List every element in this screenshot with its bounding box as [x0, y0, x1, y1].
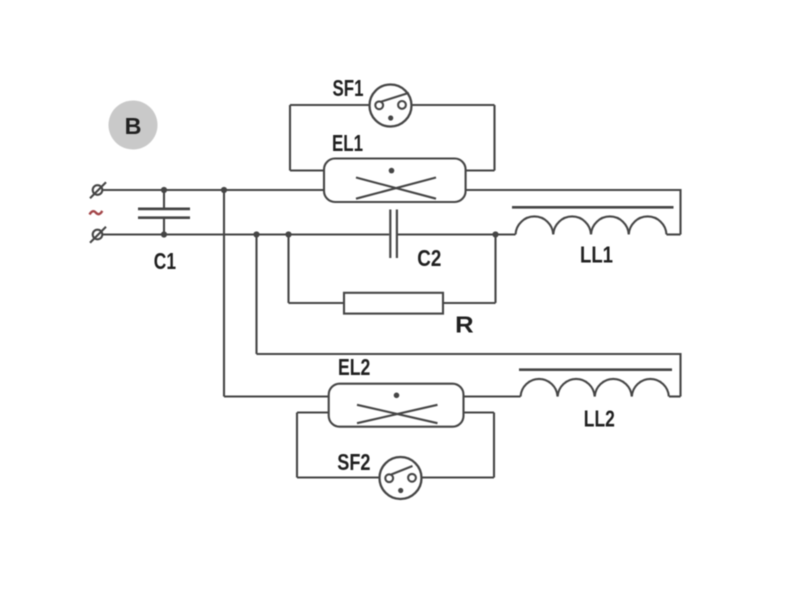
capacitor C2	[390, 210, 397, 259]
node dot: C1 top	[161, 187, 167, 193]
svg-text:EL1: EL1	[332, 130, 363, 156]
wire LL2 right stub	[669, 395, 681, 397]
wire branch lamp2 return to bottom rail	[257, 235, 681, 397]
node dot: R loop right / LL1	[492, 231, 498, 237]
lamp EL1	[324, 159, 466, 203]
badge B	[109, 101, 158, 150]
node dot: lamp2 return bottom	[253, 231, 259, 237]
wire top main left	[103, 189, 325, 191]
node dot: C1 bottom	[161, 231, 167, 237]
svg-text:C2: C2	[417, 245, 441, 271]
ballast LL1	[512, 207, 674, 234]
AC source symbol ~	[90, 211, 103, 215]
starter SF2	[380, 457, 422, 499]
node dot: R loop left	[285, 231, 291, 237]
svg-text:B: B	[125, 113, 142, 139]
starter SF1	[370, 85, 412, 127]
wire R-loop left vertical	[287, 235, 289, 304]
ballast LL2	[519, 370, 672, 397]
svg-text:SF2: SF2	[337, 449, 370, 475]
wire bottom main left	[103, 233, 390, 235]
wire bottom main right of C2	[398, 233, 516, 235]
svg-text:EL2: EL2	[338, 354, 370, 380]
node dot: lamp2 branch top	[221, 187, 227, 193]
svg-text:C1: C1	[154, 248, 176, 274]
svg-text:SF1: SF1	[333, 75, 364, 101]
wire branch lamp2 from top rail	[224, 190, 329, 397]
wire lamp2 right to LL2	[464, 395, 521, 397]
wire LL1 right stub	[667, 233, 681, 235]
capacitor C1	[138, 190, 190, 235]
svg-text:LL1: LL1	[580, 242, 613, 268]
wire R-loop right vertical	[494, 235, 496, 304]
resistor R	[344, 293, 443, 314]
svg-text:LL2: LL2	[584, 406, 615, 432]
terminal X1 (top input)	[90, 182, 106, 198]
lamp EL2	[329, 384, 464, 427]
wire SF1 loop	[290, 105, 495, 171]
wire top main right (lamp1 to LL1 corner)	[466, 189, 681, 191]
svg-text:R: R	[455, 312, 474, 338]
wire LL1 right vertical	[679, 189, 681, 235]
wire R-loop left horizontal	[289, 302, 345, 304]
wire R-loop right horizontal	[443, 302, 496, 304]
wire SF2 loop	[297, 413, 494, 478]
terminal X2 (bottom input)	[90, 227, 106, 243]
